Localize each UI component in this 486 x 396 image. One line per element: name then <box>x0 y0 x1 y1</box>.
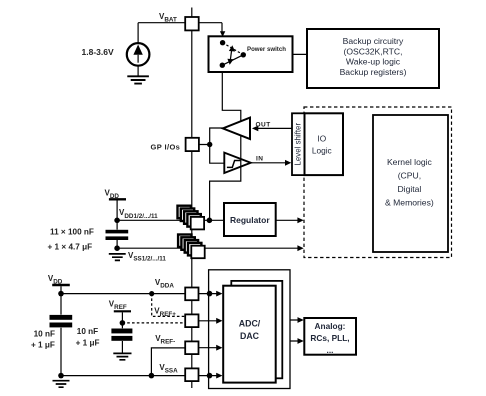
svg-text:Power switch: Power switch <box>247 46 286 53</box>
svg-text:OUT: OUT <box>256 122 271 129</box>
svg-text:ADC/: ADC/ <box>239 319 261 329</box>
svg-text:Digital: Digital <box>397 184 421 194</box>
svg-text:(OSC32K,RTC,: (OSC32K,RTC, <box>343 46 402 56</box>
svg-text:+ 1 μF: + 1 μF <box>31 340 55 349</box>
svg-text:10 nF: 10 nF <box>77 327 98 336</box>
svg-text:RCs, PLL,: RCs, PLL, <box>310 333 349 343</box>
svg-text:DAC: DAC <box>240 331 260 341</box>
svg-text:(CPU,: (CPU, <box>398 171 421 181</box>
svg-text:IO: IO <box>317 134 326 144</box>
svg-text:Regulator: Regulator <box>230 215 270 225</box>
svg-text:+ 1 μF: + 1 μF <box>76 338 100 347</box>
svg-text:...: ... <box>327 345 334 355</box>
svg-text:+ 1 × 4.7 μF: + 1 × 4.7 μF <box>48 242 93 251</box>
svg-text:Kernel logic: Kernel logic <box>387 157 433 167</box>
svg-text:Analog:: Analog: <box>315 321 346 331</box>
svg-text:10 nF: 10 nF <box>34 329 55 338</box>
svg-text:Logic: Logic <box>312 146 332 156</box>
svg-text:IN: IN <box>256 155 264 162</box>
svg-text:Level shifter: Level shifter <box>294 123 303 166</box>
svg-text:Wake-up logic: Wake-up logic <box>346 57 401 67</box>
svg-text:Backup registers): Backup registers) <box>340 67 407 77</box>
svg-text:GP I/Os: GP I/Os <box>151 142 181 151</box>
svg-text:1.8-3.6V: 1.8-3.6V <box>82 47 114 57</box>
svg-text:Backup circuitry: Backup circuitry <box>343 36 404 46</box>
svg-text:& Memories): & Memories) <box>385 198 434 208</box>
svg-text:11 × 100 nF: 11 × 100 nF <box>50 227 94 236</box>
